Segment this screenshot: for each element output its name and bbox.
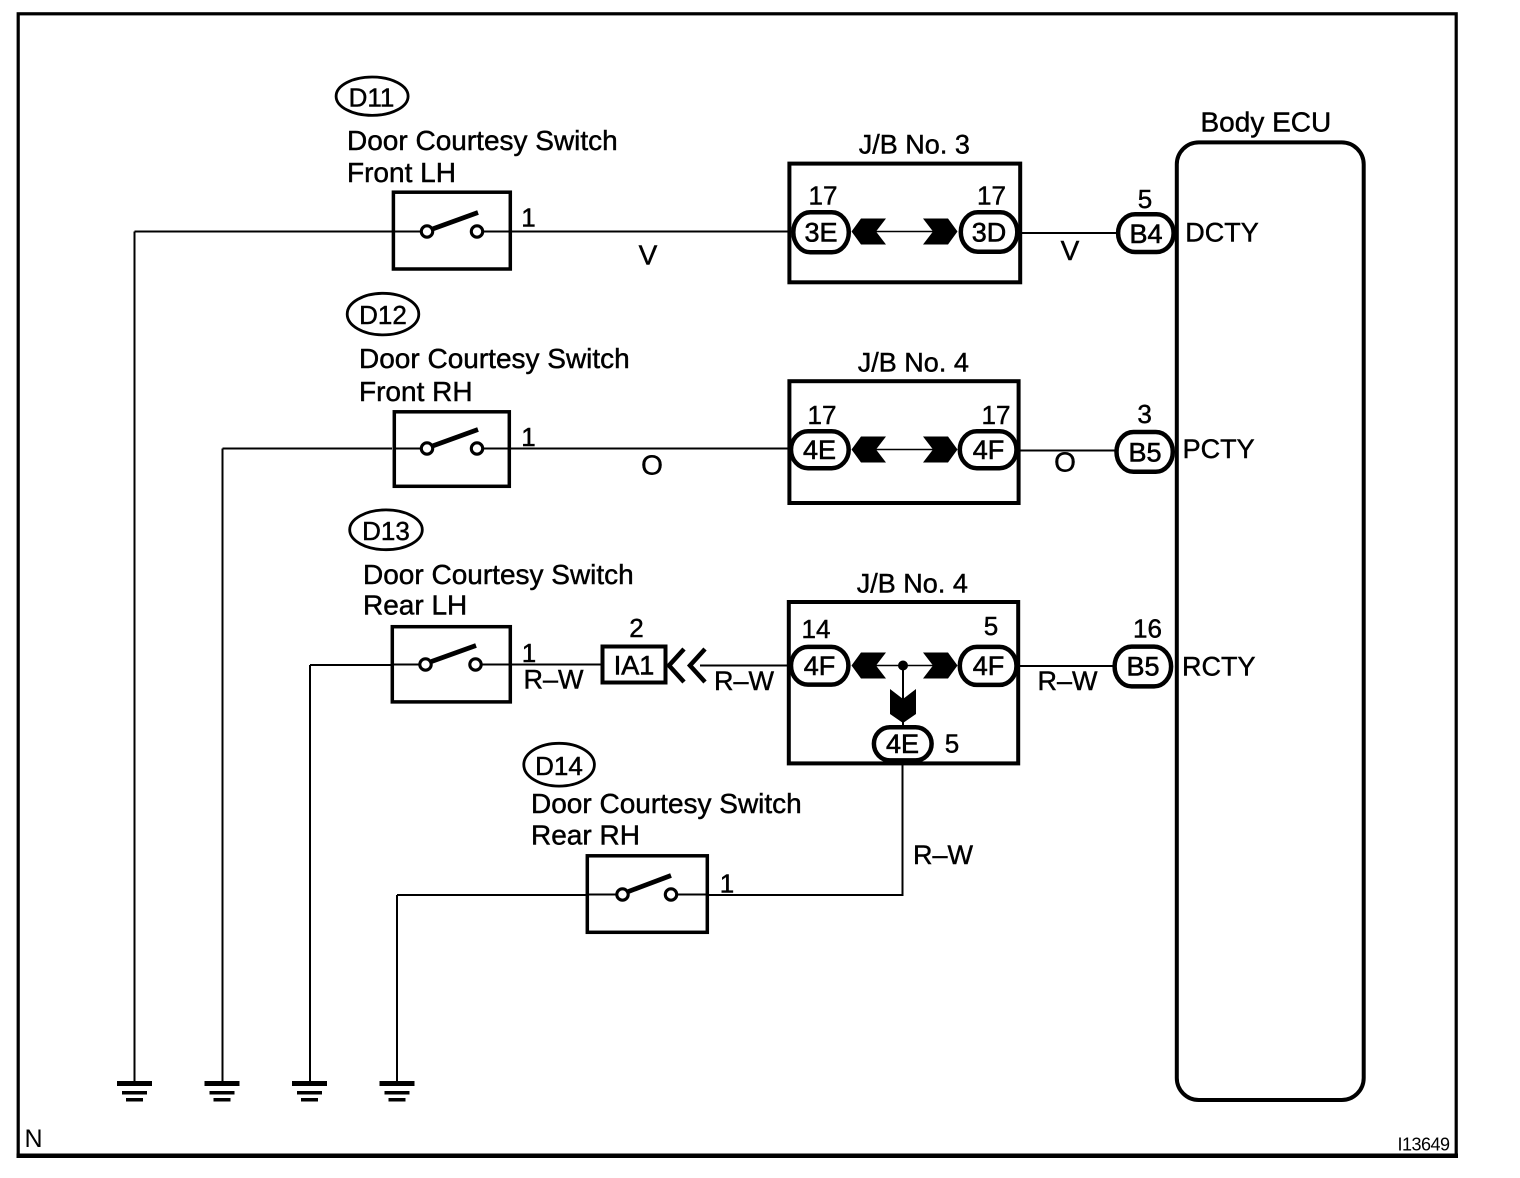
svg-text:Body ECU: Body ECU [1201, 107, 1332, 138]
svg-text:4E: 4E [803, 435, 836, 465]
svg-text:Door Courtesy Switch: Door Courtesy Switch [359, 343, 630, 374]
connector 3E [793, 212, 849, 252]
wire row2 left vertical to ground [222, 449, 224, 1083]
wire row2 between arrows [872, 449, 936, 451]
arrow right row1 [923, 219, 958, 245]
svg-text:B5: B5 [1126, 651, 1159, 681]
svg-text:D12: D12 [359, 300, 407, 330]
svg-text:17: 17 [982, 400, 1011, 430]
wire row2 switch to J/B No.4 [511, 448, 795, 450]
wire row2 left horizontal [223, 448, 393, 450]
svg-text:5: 5 [984, 611, 998, 641]
svg-text:17: 17 [977, 181, 1006, 211]
switch D14 contacts [586, 876, 710, 901]
connector B4 [1118, 214, 1174, 252]
svg-text:J/B No. 3: J/B No. 3 [859, 130, 970, 160]
svg-text:Door Courtesy Switch: Door Courtesy Switch [531, 788, 802, 819]
svg-text:5: 5 [1138, 184, 1152, 214]
svg-text:B5: B5 [1128, 437, 1161, 467]
wire row1 switch to J/B No.3 [512, 231, 795, 233]
svg-text:I13649: I13649 [1398, 1135, 1451, 1155]
wire row1 left horizontal [135, 231, 393, 233]
svg-text:R–W: R–W [1038, 666, 1099, 696]
svg-text:Front LH: Front LH [347, 157, 456, 188]
wire row3 left horizontal [310, 664, 391, 666]
svg-text:PCTY: PCTY [1183, 434, 1255, 464]
svg-text:IA1: IA1 [614, 651, 655, 681]
connector 3D [961, 212, 1018, 252]
svg-text:17: 17 [809, 181, 838, 211]
svg-text:14: 14 [802, 614, 831, 644]
svg-text:4E: 4E [886, 729, 919, 759]
svg-text:J/B No. 4: J/B No. 4 [858, 348, 969, 378]
svg-text:D14: D14 [535, 751, 583, 781]
svg-text:D13: D13 [362, 516, 410, 546]
svg-text:4F: 4F [973, 651, 1005, 681]
arrow left row2 [852, 437, 887, 463]
svg-text:1: 1 [720, 869, 734, 899]
svg-text:Front RH: Front RH [359, 376, 473, 407]
svg-text:2: 2 [629, 613, 643, 643]
wire row1 left vertical to ground [134, 232, 136, 1083]
svg-text:O: O [641, 450, 663, 481]
J/B No. 4 box row2 [789, 381, 1018, 503]
svg-text:Rear RH: Rear RH [531, 820, 640, 851]
svg-text:4F: 4F [804, 651, 836, 681]
ground G1 [117, 1081, 152, 1102]
junction dot [898, 661, 908, 671]
switch D12 box [394, 412, 509, 487]
wire row3 between arrows with junction [872, 665, 936, 667]
connector D13 tag [350, 510, 423, 550]
svg-text:O: O [1054, 447, 1076, 478]
svg-text:1: 1 [522, 638, 536, 668]
switch D11 box [393, 192, 510, 269]
wire row3 left vertical to ground [309, 665, 311, 1082]
wire row3 switch to IA1 [512, 664, 601, 666]
svg-text:R–W: R–W [913, 840, 974, 870]
wire row1 between arrows [872, 231, 936, 233]
svg-text:D11: D11 [349, 82, 395, 112]
Body ECU box [1177, 142, 1364, 1100]
connector D11 tag [336, 77, 408, 115]
J/B No. 4 box row3 [789, 602, 1018, 763]
connector B5 row3 [1115, 647, 1172, 687]
svg-text:V: V [1061, 235, 1080, 266]
connector 4F row3 left [791, 647, 848, 685]
svg-text:3E: 3E [804, 217, 837, 247]
arrow left row3 [852, 653, 887, 679]
wire row3 chevrons to J/B No.4 [700, 665, 793, 667]
svg-text:N: N [25, 1125, 43, 1153]
connector D12 tag [347, 293, 419, 335]
connector 4F row3 right [960, 647, 1017, 685]
ground G3 [292, 1081, 327, 1102]
svg-text:B4: B4 [1129, 219, 1162, 249]
svg-text:Door Courtesy Switch: Door Courtesy Switch [347, 125, 618, 156]
wire row2 4F to B5 [1017, 450, 1116, 452]
arrow right row2 [923, 437, 958, 463]
svg-text:R–W: R–W [714, 666, 775, 696]
switch D11 contacts [392, 213, 512, 238]
ground G4 [380, 1081, 415, 1102]
chevron arrows after IA1 [669, 649, 705, 682]
switch D14 box [587, 856, 707, 933]
ground G2 [205, 1081, 240, 1102]
svg-text:3: 3 [1137, 399, 1151, 429]
switch D13 box [392, 627, 510, 702]
wire row1 3D to B4 [1019, 232, 1118, 234]
svg-text:DCTY: DCTY [1185, 218, 1259, 248]
svg-text:5: 5 [945, 729, 959, 759]
switch D13 contacts [391, 646, 513, 671]
svg-text:16: 16 [1133, 614, 1162, 644]
connector 4E [791, 431, 849, 468]
connector IA1 box [603, 647, 666, 683]
connector 4F [960, 431, 1017, 468]
svg-text:V: V [639, 240, 658, 271]
arrow down row3 [890, 689, 916, 723]
svg-text:1: 1 [521, 203, 535, 233]
svg-text:R–W: R–W [524, 665, 585, 695]
svg-text:J/B No. 4: J/B No. 4 [857, 569, 968, 599]
wire junction down to 4E [902, 666, 904, 728]
arrow left row1 [852, 219, 887, 245]
svg-text:17: 17 [808, 400, 837, 430]
wire row4 left vertical to ground [396, 895, 398, 1082]
wire row3 4F to B5 [1016, 665, 1114, 667]
arrow right row3 [923, 653, 958, 679]
connector B5 row2 [1117, 432, 1173, 472]
svg-text:1: 1 [521, 422, 535, 452]
J/B No. 3 box [789, 164, 1020, 283]
switch D12 contacts [393, 430, 512, 455]
svg-text:3D: 3D [972, 217, 1007, 247]
wire row4 left horizontal [397, 894, 586, 896]
connector 4E bottom [874, 727, 932, 760]
svg-text:Door Courtesy Switch: Door Courtesy Switch [363, 559, 634, 590]
wire row4 switch right then up to 4E [709, 765, 903, 895]
connector D14 tag [524, 743, 595, 786]
svg-text:RCTY: RCTY [1182, 652, 1256, 682]
svg-text:4F: 4F [973, 435, 1005, 465]
svg-text:Rear LH: Rear LH [363, 590, 467, 621]
